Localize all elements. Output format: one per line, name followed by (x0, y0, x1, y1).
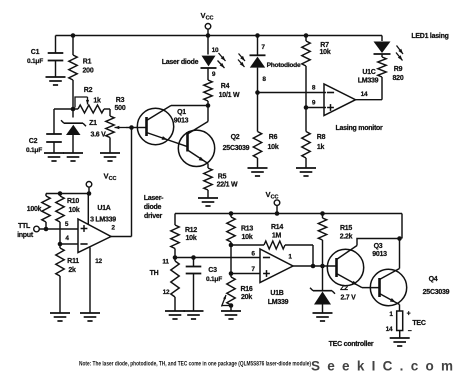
svg-text:Lasing monitor: Lasing monitor (335, 125, 383, 132)
svg-text:7: 7 (261, 44, 265, 51)
svg-text:R7: R7 (320, 42, 329, 49)
svg-text:10: 10 (212, 47, 219, 54)
svg-text:10k: 10k (242, 234, 253, 241)
TTL input terminal (17, 223, 39, 239)
transistor Q1 (137, 106, 188, 147)
resistor 100k (27, 196, 50, 229)
node VCC stub (275, 211, 280, 216)
wire VCC top rail (56, 35, 383, 37)
wire to U1B pin 7 (231, 273, 260, 275)
svg-text:100k: 100k (27, 206, 42, 213)
svg-text:R11: R11 (67, 258, 79, 265)
wire node E to U1C pin 9 (306, 107, 326, 109)
op-amp U1A (65, 205, 116, 265)
op-amp U1C (312, 69, 379, 116)
svg-text:U1B: U1B (270, 290, 283, 297)
ground R16 (221, 311, 241, 319)
wire TEC top rail (175, 214, 402, 239)
svg-text:3.6 V: 3.6 V (90, 132, 106, 139)
VCC terminal U1A (86, 172, 116, 194)
svg-text:R10: R10 (67, 198, 79, 205)
ground R8 (296, 168, 316, 176)
VCC terminal TEC (265, 190, 279, 214)
ground Z1 (63, 153, 83, 161)
label laser-diode driver (144, 195, 164, 220)
svg-text:8: 8 (312, 85, 316, 92)
node TH top (173, 255, 178, 260)
wire rail to C1 (55, 36, 57, 54)
potentiometer R16 (222, 274, 253, 312)
svg-text:driver: driver (144, 213, 162, 220)
svg-text:10k: 10k (320, 49, 331, 56)
svg-text:500: 500 (115, 105, 126, 112)
svg-text:TEC: TEC (412, 320, 425, 327)
svg-text:8: 8 (262, 76, 266, 83)
label lasing monitor (335, 125, 383, 132)
svg-text:200: 200 (83, 68, 94, 75)
svg-text:10k: 10k (69, 207, 80, 214)
ground R6 (248, 168, 268, 176)
svg-text:Q4: Q4 (429, 276, 438, 283)
svg-text:4: 4 (65, 235, 69, 242)
svg-text:7: 7 (251, 266, 255, 273)
svg-text:9: 9 (212, 71, 216, 78)
node A (71, 107, 76, 112)
wire TTL to U1A pin 5 (39, 228, 78, 230)
svg-text:2k: 2k (68, 267, 76, 274)
svg-text:+: + (407, 311, 411, 318)
svg-text:−: − (408, 328, 412, 335)
svg-text:R5: R5 (218, 174, 227, 181)
wire node B to Q1 base (132, 127, 147, 129)
svg-text:9013: 9013 (372, 251, 387, 258)
transistor Q3 (327, 239, 399, 288)
svg-text:Laser-: Laser- (144, 195, 164, 202)
svg-text:6: 6 (251, 251, 255, 258)
resistor R9 (378, 57, 404, 82)
node 100k bottom (44, 227, 49, 232)
svg-text:10k: 10k (268, 144, 279, 151)
svg-text:820: 820 (393, 75, 404, 82)
svg-text:Q1: Q1 (177, 109, 186, 116)
svg-text:R14: R14 (271, 224, 283, 231)
svg-text:TH: TH (150, 270, 159, 277)
note text (79, 361, 311, 368)
transistor Q4 (362, 239, 450, 312)
svg-text:Photodiode: Photodiode (267, 62, 301, 69)
node D (photodiode/R6) (255, 90, 260, 95)
ground TH (165, 311, 185, 319)
node C (206, 103, 211, 108)
svg-text:1: 1 (288, 254, 292, 261)
svg-text:14: 14 (386, 326, 393, 333)
potentiometer R2 (73, 87, 109, 113)
svg-text:R16: R16 (240, 286, 252, 293)
resistor R8 (302, 108, 326, 169)
wire U1B output (293, 265, 336, 267)
svg-text:2: 2 (111, 225, 115, 232)
svg-text:VCC: VCC (265, 190, 278, 201)
svg-text:20k: 20k (241, 294, 252, 301)
ground R3 (100, 153, 120, 161)
ground C3 (184, 311, 204, 319)
thermistor TH (150, 258, 180, 312)
ground U1A pin12 (80, 313, 100, 321)
op-amp U1B (251, 249, 293, 306)
svg-text:R13: R13 (241, 226, 253, 233)
VCC terminal top (200, 11, 213, 36)
node R15/Z2 (320, 264, 325, 269)
svg-text:9: 9 (312, 100, 316, 107)
node R10 top (58, 191, 63, 196)
ground Z2 (313, 313, 333, 321)
svg-text:VCC: VCC (103, 172, 116, 183)
node U1B pin 7 (229, 271, 234, 276)
node R13 bottom (229, 243, 234, 248)
wire R13 to R16 (230, 245, 232, 274)
ground C1 (46, 77, 66, 85)
svg-text:LM339: LM339 (268, 299, 289, 306)
svg-text:Note: The laser diode, photodi: Note: The laser diode, photodiode, TH, a… (79, 361, 311, 368)
wire U1A output to node B (111, 128, 132, 237)
ground TEC (390, 338, 410, 346)
resistor R4 (204, 69, 240, 106)
transistor Q2 (178, 106, 249, 169)
svg-text:1M: 1M (272, 233, 282, 240)
svg-text:25C3039: 25C3039 (223, 145, 250, 152)
wire U1A pin 3 (87, 194, 89, 225)
svg-text:R15: R15 (340, 225, 352, 232)
resistor R14 (231, 224, 313, 266)
potentiometer R3 (106, 97, 126, 153)
ground R5 (198, 198, 218, 206)
svg-text:1k: 1k (317, 144, 325, 151)
watermark SeekIC.com (311, 359, 453, 374)
svg-text:C3: C3 (208, 267, 217, 274)
resistor R1 (69, 36, 94, 110)
svg-text:0.1μF: 0.1μF (26, 147, 42, 154)
svg-text:5: 5 (65, 221, 69, 228)
node rail-photodiode (255, 33, 260, 38)
svg-text:R1: R1 (83, 59, 92, 66)
resistor R7 (302, 36, 331, 108)
resistor R6 (253, 93, 279, 169)
photodiode D2 (238, 36, 301, 93)
svg-text:11: 11 (162, 259, 169, 266)
svg-text:U1A: U1A (97, 205, 110, 212)
node rail-R1 (71, 33, 76, 38)
node rail-laser (206, 33, 211, 38)
svg-text:R4: R4 (221, 83, 230, 90)
node E (R7/R8/pin9) (304, 105, 309, 110)
wire U1A pin 12 (89, 248, 91, 314)
wire node to U1A pin 4 (60, 243, 78, 245)
node Q3 collector (397, 236, 402, 241)
resistor R10 (56, 194, 80, 245)
capacitor C3 (186, 258, 223, 312)
resistor R13 (227, 214, 254, 246)
node C3 top (191, 255, 196, 260)
svg-text:25C3039: 25C3039 (423, 289, 450, 296)
wire U1C output (356, 77, 383, 100)
resistor R15 (318, 214, 352, 267)
label TEC controller (329, 341, 374, 348)
node R16 bottom (229, 303, 234, 308)
svg-text:Q3: Q3 (374, 243, 383, 250)
laser diode (162, 36, 226, 79)
svg-text:12: 12 (163, 289, 170, 296)
svg-text:R6: R6 (269, 134, 278, 141)
svg-text:2.2k: 2.2k (340, 234, 353, 241)
svg-text:12: 12 (95, 258, 102, 265)
svg-text:R9: R9 (394, 66, 403, 73)
node rail-R7 (304, 33, 309, 38)
svg-text:input: input (17, 232, 34, 239)
wire R3 wiper to node B (115, 126, 132, 129)
svg-text:Q2: Q2 (231, 134, 240, 141)
node feedback (311, 264, 316, 269)
svg-text:R8: R8 (317, 134, 326, 141)
svg-text:TEC controller: TEC controller (329, 341, 374, 348)
svg-text:Laser diode: Laser diode (162, 59, 199, 66)
resistor R12 (171, 222, 198, 258)
TEC element (386, 311, 426, 339)
LED LED1 (374, 33, 449, 61)
svg-text:22/1 W: 22/1 W (217, 182, 238, 189)
svg-text:C2: C2 (29, 138, 38, 145)
svg-text:1k: 1k (93, 98, 101, 105)
svg-text:LED1 lasing: LED1 lasing (411, 33, 448, 40)
svg-text:0.1μF: 0.1μF (206, 276, 222, 283)
wire Q1 collector to node C (171, 105, 208, 107)
svg-text:LM339: LM339 (358, 78, 379, 85)
svg-text:R3: R3 (116, 97, 125, 104)
resistor R11 (56, 244, 79, 313)
wire VCC to dividers (46, 194, 89, 197)
svg-text:TTL: TTL (18, 223, 31, 230)
svg-text:10/1 W: 10/1 W (219, 92, 240, 99)
svg-text:VCC: VCC (200, 11, 213, 22)
node R15 top (320, 211, 325, 216)
svg-text:C1: C1 (31, 49, 40, 56)
ground C2 (44, 153, 64, 161)
svg-text:3 LM339: 3 LM339 (90, 217, 116, 224)
node B (Q1 base) (129, 125, 134, 130)
zener Z1 (61, 109, 106, 153)
node R11 top (58, 242, 63, 247)
svg-text:1: 1 (389, 311, 393, 318)
node R13 top (229, 211, 234, 216)
zener Z2 (310, 266, 356, 313)
svg-text:Z1: Z1 (89, 120, 97, 127)
svg-text:14: 14 (361, 91, 368, 98)
capacitor C1 (27, 49, 63, 77)
svg-text:U1C: U1C (362, 69, 375, 76)
wire divider to U1B pin 6 (175, 257, 260, 259)
capacitor C2 (26, 109, 73, 154)
node pin3 top (87, 191, 92, 196)
wire node D to U1C pin 8 (258, 92, 327, 94)
resistor R5 (204, 168, 238, 198)
svg-text:10k: 10k (186, 235, 197, 242)
svg-text:9013: 9013 (174, 118, 189, 125)
svg-text:SeekIC.com: SeekIC.com (311, 359, 453, 374)
svg-text:2.7 V: 2.7 V (340, 295, 356, 302)
svg-text:0.1μF: 0.1μF (27, 58, 43, 65)
ground R11 (50, 313, 70, 321)
svg-text:R2: R2 (84, 87, 93, 94)
svg-text:R12: R12 (185, 227, 197, 234)
svg-text:diode: diode (144, 204, 162, 211)
